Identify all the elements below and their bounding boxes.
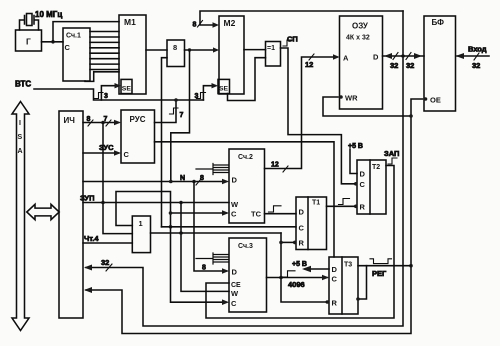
pulse glyph 7-bit	[170, 108, 179, 114]
arrow D bus towards БФ	[414, 53, 422, 59]
svg-text:32: 32	[472, 61, 480, 70]
wire element 1 output	[151, 232, 282, 234]
arrow into ОЗУ A	[333, 54, 340, 60]
svg-text:ОЗУ: ОЗУ	[352, 22, 369, 31]
node T3 feedback	[356, 297, 360, 301]
svg-text:C: C	[231, 210, 237, 219]
svg-text:8: 8	[87, 116, 91, 123]
svg-text:D: D	[299, 208, 305, 217]
node T1 R branch	[279, 241, 283, 245]
wire clock bridge over D line to counters C	[116, 192, 227, 303]
svg-text:CE: CE	[231, 282, 241, 289]
svg-text:М1: М1	[124, 17, 136, 27]
svg-text:8: 8	[193, 22, 197, 29]
wire XOR output СП line	[281, 48, 355, 184]
svg-text:ЗУП: ЗУП	[80, 194, 94, 203]
arrow into M2 data input	[213, 47, 219, 52]
buffer element 8	[167, 40, 185, 67]
tick M2 input width	[198, 21, 203, 28]
inverted pulse glyph РЕГ	[370, 259, 392, 264]
svg-text:Т3: Т3	[344, 262, 352, 269]
svg-text:W: W	[231, 200, 239, 209]
multiplexer M1	[119, 15, 146, 94]
tick 7 on РУС input	[106, 120, 111, 126]
wire ОЗУ WR loop	[323, 97, 411, 116]
wire branch ЗУП rail to Сч.3 W	[181, 203, 229, 292]
wire T3 feedback loop	[358, 266, 367, 299]
svg-text:I: I	[19, 120, 21, 127]
pulse glyph СП	[283, 40, 293, 46]
arrow into ИЧ control	[84, 287, 92, 293]
node data rail at D bus	[401, 54, 405, 58]
wire РУС 7-bit output riser to select line	[155, 100, 177, 123]
svg-text:СП: СП	[287, 35, 298, 44]
arrow into РУС	[114, 120, 121, 126]
svg-text:A: A	[18, 148, 23, 155]
flip-flop T3	[329, 257, 358, 314]
node РЕГ on control rail	[409, 264, 413, 268]
wire Вход into БФ	[457, 55, 489, 57]
svg-text:D: D	[232, 268, 238, 277]
svg-text:32: 32	[101, 258, 109, 267]
wire Сч.1 outputs to M1 (8 lines)	[90, 32, 119, 70]
tick 12 at Сч.2 output	[283, 166, 288, 172]
node ЗУП at x181	[179, 201, 183, 205]
svg-text:S: S	[18, 134, 23, 141]
svg-text:D: D	[373, 53, 379, 62]
counter Сч.1	[63, 28, 90, 81]
inversion bullet at T2 C	[354, 182, 358, 186]
inversion bullet at T3 R	[326, 300, 330, 304]
svg-text:D: D	[332, 265, 338, 274]
svg-text:A: A	[343, 54, 349, 63]
svg-text:+5 В: +5 В	[292, 261, 307, 268]
wire riser to SE of M1	[101, 86, 118, 100]
wire M2 input branch down to counter D line	[171, 50, 190, 182]
svg-text:10 МГц: 10 МГц	[35, 10, 62, 19]
svg-text:Г: Г	[26, 37, 31, 47]
node clock rail at Сч.2 C	[169, 211, 173, 215]
tick 32 right	[406, 53, 411, 60]
wire T2 output ЗАП down to Сч.3 CE	[206, 166, 394, 319]
inversion bullet at T1 R	[293, 241, 297, 245]
svg-text:ЗУС: ЗУС	[99, 143, 114, 152]
svg-text:7: 7	[180, 112, 184, 119]
svg-text:W: W	[231, 289, 239, 298]
arrow into M2 8-bit input	[213, 22, 220, 27]
wire data rail down right side to ISA 32 line	[86, 11, 403, 326]
arrow +5V at T3 D	[302, 266, 311, 272]
svg-text:ВТС: ВТС	[15, 80, 31, 89]
svg-text:=1: =1	[267, 45, 275, 52]
wire T1 output to T2 R	[327, 205, 355, 207]
tick 32 left	[393, 53, 398, 60]
RAM ОЗУ 4К x 32	[340, 16, 383, 109]
svg-text:12: 12	[271, 162, 279, 169]
pulse glyph 4096	[283, 271, 295, 277]
node select line and 7-bit junction	[174, 98, 178, 102]
wire address Сч.2 to ОЗУ A	[265, 57, 338, 169]
svg-text:32: 32	[406, 61, 414, 70]
node clock junction	[51, 40, 55, 44]
node M2 input branch	[188, 48, 191, 51]
svg-text:3: 3	[104, 93, 108, 100]
tick 32 data width	[106, 264, 112, 271]
wire Чт.4 to element 1	[83, 242, 132, 244]
arrow into Сч.3 D	[222, 268, 229, 274]
XOR element =1	[266, 42, 281, 67]
crystal ZQ1 10 МГц	[20, 14, 39, 31]
svg-text:Вход: Вход	[468, 45, 487, 54]
wire to T1 C input	[162, 226, 297, 228]
svg-text:SE: SE	[122, 86, 132, 93]
inversion bullet at T2 R	[354, 205, 358, 209]
pulse glyph at SE of M2	[197, 93, 206, 99]
pulse glyph ЗАП	[388, 158, 397, 164]
node element1 output at x181	[179, 231, 183, 235]
svg-text:SE: SE	[219, 86, 229, 93]
tick 8 on D line	[196, 179, 201, 185]
buffer БФ	[424, 16, 456, 111]
wire БФ OE control loop to ИЧ	[86, 99, 423, 334]
svg-text:R: R	[299, 239, 305, 248]
counter Сч.3	[229, 238, 267, 312]
multiplexer M2	[219, 16, 244, 94]
arrow into ИЧ 32 data	[84, 265, 92, 271]
interface block ИЧ (ISA channel)	[59, 111, 83, 318]
arrow into SE of M1	[115, 83, 122, 88]
svg-text:ИЧ: ИЧ	[64, 116, 76, 125]
svg-text:Т2: Т2	[372, 164, 380, 171]
wire ИЧ to РУС input	[83, 122, 119, 124]
wire N data line ИЧ to Сч.2 D	[83, 181, 227, 183]
svg-text:32: 32	[390, 61, 398, 70]
svg-text:М2: М2	[224, 18, 236, 28]
svg-text:C: C	[299, 224, 305, 233]
wire +5V arrow into T3 D	[305, 268, 329, 270]
svg-text:ТС: ТС	[251, 210, 262, 219]
svg-text:R: R	[360, 203, 366, 212]
tick 8 on РУС input	[88, 120, 93, 126]
svg-text:Т1: Т1	[312, 200, 320, 207]
node on 4096 line	[279, 276, 283, 280]
svg-text:4К х 32: 4К х 32	[346, 35, 370, 42]
arrow D bus towards ОЗУ	[384, 53, 392, 59]
svg-text:OE: OE	[430, 96, 441, 105]
flip-flop T2	[357, 160, 386, 214]
wire ТС to T1 D	[265, 213, 297, 215]
tick 12 at ОЗУ A	[309, 54, 314, 60]
node WR on control rail	[409, 114, 413, 118]
wire element1 output down to T1 R and T3 R	[281, 233, 326, 302]
control register РУС	[121, 110, 155, 163]
node clock rail at T1 C line	[169, 225, 173, 229]
svg-text:D: D	[360, 170, 366, 179]
logic element 1	[132, 216, 150, 253]
arrow into SE of M2	[212, 83, 219, 88]
svg-text:Сч.3: Сч.3	[238, 243, 253, 250]
wire branch into T1 R	[281, 241, 293, 243]
bus group glyph at Сч.3 D	[196, 253, 229, 264]
node РУС input branch	[101, 121, 105, 125]
wire XOR second input from M2 bottom	[228, 58, 266, 101]
wire M2 output to XOR	[244, 49, 266, 51]
svg-text:12: 12	[305, 60, 313, 69]
pulse glyph at T2 R	[339, 199, 350, 205]
svg-text:Сч.1: Сч.1	[66, 33, 81, 40]
svg-text:БФ: БФ	[432, 18, 445, 27]
horizontal bus double-arrow	[27, 204, 59, 219]
flip-flop T1	[296, 197, 327, 250]
svg-text:4096: 4096	[288, 280, 305, 289]
wire РЕГ output of T3	[358, 265, 411, 267]
wire 4096 Сч.3 to T3 C	[267, 277, 328, 279]
select-input box SE of M1	[121, 79, 132, 93]
svg-text:C: C	[65, 43, 71, 52]
select-input box SE of M2	[218, 79, 230, 93]
svg-text:WR: WR	[345, 94, 358, 103]
svg-text:8: 8	[173, 43, 177, 52]
svg-text:C: C	[231, 299, 237, 308]
wire G to Сч.1 C input	[42, 41, 64, 43]
wire element 8 to M2 data input	[185, 49, 217, 51]
arrow into Сч.2 D	[222, 179, 229, 185]
wire Сч.1 lowest output loop to M1	[85, 72, 119, 82]
inversion bullet at OE	[424, 97, 428, 101]
svg-text:+5 В: +5 В	[348, 143, 363, 150]
wire branch down to element 1 input	[103, 123, 132, 234]
wire D line branch down to Сч.3 D	[194, 182, 227, 272]
node D line to M2 branch	[169, 180, 173, 184]
node ЗУП at x103	[101, 201, 105, 205]
svg-text:3: 3	[195, 93, 199, 100]
svg-text:Чт.4: Чт.4	[84, 234, 99, 243]
svg-text:8: 8	[200, 175, 204, 182]
node D line to Сч.3 branch	[192, 180, 196, 184]
svg-text:7: 7	[104, 116, 108, 123]
ISA bus arrow	[12, 102, 29, 331]
wire РУС second output to T3 top	[155, 142, 335, 257]
svg-text:8: 8	[202, 265, 206, 272]
label I S A	[18, 120, 23, 155]
wire branch into Сч.2 C	[171, 212, 227, 214]
svg-text:1: 1	[139, 219, 143, 228]
generator G	[16, 30, 42, 51]
pulse glyph at T1 D	[269, 206, 282, 212]
wire riser to SE of M2	[203, 86, 215, 100]
svg-text:ЗАП: ЗАП	[384, 149, 399, 158]
wire 10MHz to M1 top input	[53, 22, 119, 42]
wire ЗУП line to Сч.2 W	[83, 202, 229, 204]
svg-text:РЕГ: РЕГ	[372, 269, 387, 278]
svg-text:РУС: РУС	[130, 115, 146, 124]
arrow Вход into БФ	[456, 53, 465, 59]
svg-text:C: C	[332, 275, 338, 284]
wire ОЗУ D to БФ bidirectional	[383, 55, 425, 57]
svg-text:R: R	[332, 299, 338, 308]
wire M1 output to element 8	[146, 49, 167, 51]
svg-text:D: D	[232, 176, 238, 185]
pulse glyph at SE of M1	[95, 93, 104, 99]
wire +5V to T2 D	[350, 149, 357, 174]
counter Сч.2	[229, 149, 265, 223]
wire element 8 output down to T1 C line	[162, 58, 168, 227]
tick 32 Вход	[474, 53, 479, 60]
wire ВТС select line	[34, 89, 203, 100]
svg-text:Сч.2: Сч.2	[238, 154, 253, 161]
arrow into T3 C	[322, 275, 329, 281]
arrow into Сч.2 C	[222, 210, 229, 216]
bus group glyph at Сч.2 D	[196, 164, 229, 175]
svg-text:N: N	[180, 175, 185, 182]
inversion bullet at WR	[339, 95, 343, 99]
wire ЗУС to РУС C	[83, 152, 119, 154]
arrow into РУС C	[114, 150, 121, 156]
svg-text:C: C	[124, 150, 130, 159]
svg-text:C: C	[360, 180, 366, 189]
wire M2 8-bit input from top rail	[200, 11, 403, 25]
arrow into Сч.3 C	[222, 299, 229, 305]
